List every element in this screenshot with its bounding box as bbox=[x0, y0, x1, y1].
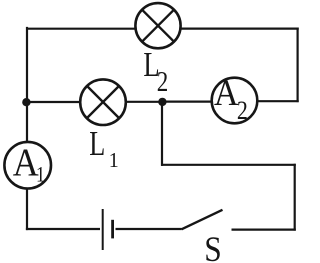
wire right vertical lower bbox=[294, 164, 296, 231]
svg-text:L: L bbox=[89, 124, 105, 163]
svg-text:S: S bbox=[204, 229, 222, 263]
wire top left to lamp L2 bbox=[26, 28, 135, 30]
svg-text:1: 1 bbox=[109, 148, 119, 172]
ammeter A1 bbox=[4, 142, 51, 189]
svg-text:2: 2 bbox=[237, 96, 248, 125]
svg-text:A: A bbox=[214, 73, 239, 114]
lamp L2 bbox=[135, 3, 180, 48]
wire battery to switch bbox=[116, 228, 182, 230]
node A junction dot bbox=[22, 98, 30, 106]
wire left vertical upper bbox=[26, 27, 28, 141]
ammeter A2 bbox=[212, 78, 258, 124]
node B junction dot bbox=[158, 98, 166, 106]
wire y164 horizontal bbox=[161, 164, 296, 166]
wire bottom left to battery bbox=[26, 228, 100, 230]
wire left vertical lower (A1 to bottom) bbox=[26, 190, 28, 231]
wire A2 to right vertical bbox=[259, 100, 299, 102]
wire lamp L2 to top right corner bbox=[182, 28, 299, 30]
wire middle vertical from node B bbox=[161, 101, 163, 166]
svg-text:A: A bbox=[13, 141, 39, 184]
wire node A to lamp L1 bbox=[27, 101, 80, 103]
battery: long positive plate bbox=[102, 209, 104, 250]
svg-text:2: 2 bbox=[157, 67, 169, 98]
wire switch right contact to lower right corner bbox=[232, 229, 296, 231]
wire node B to A2 bbox=[161, 100, 211, 102]
wire right vertical upper bbox=[297, 28, 299, 103]
lamp L1 bbox=[80, 79, 126, 125]
wire lamp L1 to node B bbox=[127, 101, 164, 103]
battery: short negative plate bbox=[111, 220, 114, 239]
switch S blade bbox=[182, 210, 223, 230]
svg-text:1: 1 bbox=[36, 161, 45, 186]
